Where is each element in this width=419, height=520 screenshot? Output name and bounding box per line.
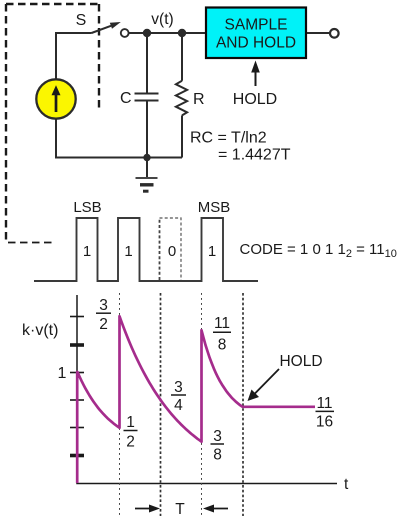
svg-text:k·v(t): k·v(t) (22, 322, 58, 339)
svg-text:HOLD: HOLD (233, 91, 277, 108)
svg-text:SAMPLE: SAMPLE (225, 17, 288, 34)
svg-text:3: 3 (213, 428, 222, 445)
svg-text:LSB: LSB (73, 199, 101, 216)
svg-text:v(t): v(t) (151, 11, 173, 28)
svg-text:AND HOLD: AND HOLD (216, 35, 296, 52)
svg-text:2: 2 (126, 434, 135, 451)
svg-text:0: 0 (168, 243, 176, 260)
svg-text:1: 1 (126, 414, 135, 431)
svg-text:S: S (76, 12, 87, 29)
svg-text:MSB: MSB (198, 199, 231, 216)
svg-text:RC = T/ln2: RC = T/ln2 (190, 130, 267, 147)
svg-text:= 1.4427T: = 1.4427T (218, 147, 291, 164)
svg-text:3: 3 (99, 297, 108, 314)
svg-text:HOLD: HOLD (279, 353, 322, 370)
svg-text:8: 8 (218, 337, 227, 354)
svg-text:16: 16 (316, 414, 333, 431)
svg-text:1: 1 (208, 243, 216, 260)
svg-text:t: t (344, 476, 349, 493)
svg-text:8: 8 (213, 446, 222, 463)
svg-text:CODE = 1 0 1 12 = 1110: CODE = 1 0 1 12 = 1110 (240, 241, 397, 260)
svg-text:2: 2 (99, 316, 108, 333)
svg-text:1: 1 (124, 243, 132, 260)
svg-text:R: R (193, 91, 205, 108)
svg-text:T: T (175, 501, 185, 518)
svg-text:1: 1 (58, 365, 67, 382)
svg-text:1: 1 (83, 243, 91, 260)
svg-text:C: C (120, 90, 132, 107)
svg-text:4: 4 (174, 397, 183, 414)
svg-text:11: 11 (316, 395, 332, 412)
svg-text:3: 3 (174, 379, 183, 396)
svg-text:11: 11 (214, 315, 230, 332)
